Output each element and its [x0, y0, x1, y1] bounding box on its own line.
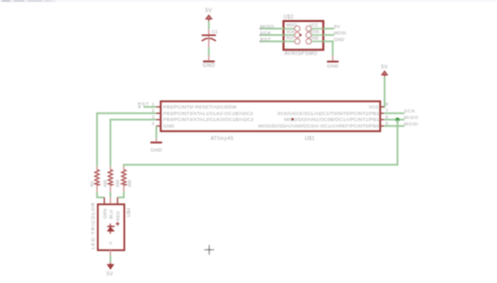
wire R3 to LED GRN [97, 192, 104, 198]
LED U$4 box [98, 204, 125, 250]
wire C1 to GND [208, 47, 210, 55]
wire MISO to U$2 [261, 28, 284, 30]
wire inside U$2 row MOSI [309, 34, 323, 36]
wire inside U$2 row VCC [309, 28, 323, 30]
svg-text:3: 3 [152, 114, 155, 119]
resistor R3 pins [96, 167, 98, 170]
supply 5V symbol arrow (IC rail) [382, 71, 387, 77]
svg-text:VCC: VCC [310, 23, 319, 28]
svg-text:R3: R3 [89, 181, 94, 187]
svg-text:MOSI: MOSI [404, 121, 419, 127]
svg-text:BLU: BLU [109, 210, 114, 219]
pin 3 stub [156, 119, 161, 121]
wire R2 to LED BLU [109, 192, 111, 198]
supply 5V symbol arrow (C1 rail) [206, 15, 212, 21]
svg-text:6: 6 [386, 114, 389, 119]
svg-text:U$1: U$1 [305, 136, 315, 142]
wire RST to U$2 [261, 40, 284, 42]
svg-text:SCK/USCK/SCL/ADC1/T0/INT0/PCIN: SCK/USCK/SCL/ADC1/T0/INT0/PCINT2/PB2 [277, 111, 379, 117]
wire SCK to U$2 [261, 34, 284, 36]
svg-text:U$4: U$4 [126, 208, 132, 217]
label origin cross RST [138, 106, 140, 108]
pin 6 stub [380, 119, 384, 121]
svg-text:LED-TRICOLOR: LED-TRICOLOR [91, 202, 97, 250]
svg-text:5V: 5V [106, 271, 113, 277]
svg-text:MOSI: MOSI [308, 29, 319, 34]
svg-text:SCK: SCK [404, 109, 416, 115]
wire R1 to LED RED [118, 192, 124, 198]
LED plus mark [116, 222, 120, 226]
svg-text:7: 7 [386, 108, 389, 113]
wire LED anode to 5V [109, 255, 111, 262]
capacitor C1 plates [202, 35, 216, 41]
svg-text:ATtiny45: ATtiny45 [211, 136, 234, 142]
resistor R1 pins [123, 167, 125, 170]
svg-text:8: 8 [386, 102, 389, 107]
ground symbol under U$2 [327, 56, 339, 70]
LED symbol [107, 224, 114, 234]
svg-text:2: 2 [152, 108, 155, 113]
svg-text:MISO: MISO [286, 23, 297, 28]
junction dot on MISO net [396, 118, 400, 122]
wire 5V to C1 [208, 22, 210, 30]
svg-text:MOSI/DI/SDA/AIN0/OC0A/-OC1A/AR: MOSI/DI/SDA/AIN0/OC0A/-OC1A/AREF/PCINT0/… [258, 124, 379, 130]
LED pin GRN [103, 197, 105, 204]
svg-text:GND: GND [310, 36, 319, 41]
wire inside U$2 row MISO [285, 28, 298, 30]
wire pin6 to MISO label [384, 119, 404, 121]
wire RST stub to pin1 [144, 106, 157, 108]
wire pin3 to R middle column [110, 120, 156, 167]
wire MISO junction down and left to R [124, 120, 398, 167]
label origin crosses left of U$2 [259, 27, 261, 42]
resistor R2 zigzag [108, 170, 112, 186]
capacitor C1 pin top [208, 29, 210, 38]
wire inside U$2 row GND [309, 40, 323, 42]
svg-text:1: 1 [152, 102, 155, 107]
svg-text:MISO: MISO [404, 115, 419, 121]
ground symbol under C1 [203, 55, 216, 69]
svg-text:4: 4 [152, 121, 155, 126]
svg-text:GND: GND [203, 63, 216, 69]
svg-text:MISO/DO/AIN1/OC0B/OC1A/PCINT1/: MISO/DO/AIN1/OC0B/OC1A/PCINT1/PB1 [284, 117, 379, 123]
pin 7 stub [380, 112, 384, 114]
wire U$2 MOSI to MOSI label [323, 34, 334, 36]
origin crosshair [204, 245, 214, 255]
LED pin BLU [109, 198, 111, 205]
wire pin4 down to ground [155, 126, 157, 138]
svg-text:SCK: SCK [260, 30, 271, 36]
pin 8 stub [380, 106, 384, 108]
svg-text:RST: RST [286, 36, 295, 41]
svg-text:499: 499 [102, 179, 107, 187]
svg-text:PB5/PCINT5/-RESET/ADC0/DW: PB5/PCINT5/-RESET/ADC0/DW [163, 105, 237, 111]
wire 5V to IC VCC pin [380, 77, 384, 107]
capacitor C1 pin bottom [208, 39, 210, 48]
resistor R1 zigzag [122, 170, 126, 186]
svg-text:PB3/PCINT3/XTAL1/CLKI/-OC1B/AD: PB3/PCINT3/XTAL1/CLKI/-OC1B/ADC3 [163, 111, 253, 117]
IC U$1 box [161, 101, 381, 131]
ground symbol under pin4 [150, 138, 162, 153]
svg-text:GND: GND [151, 147, 163, 153]
pin 5 stub [380, 125, 384, 127]
pad circles U$2 [295, 26, 312, 44]
svg-text:SCK: SCK [286, 29, 295, 34]
svg-text:AVRISPSMD: AVRISPSMD [284, 51, 317, 57]
wire U$2 VCC to 5V label [323, 28, 334, 30]
junction dot inside U$2 on SCK row [299, 34, 301, 36]
wire U$2 GND right then down [323, 41, 332, 55]
svg-text:U$2: U$2 [284, 15, 294, 21]
LED anode pin [109, 250, 111, 255]
svg-text:GND: GND [334, 37, 345, 43]
svg-text:GND: GND [163, 124, 174, 130]
svg-text:5: 5 [386, 121, 389, 126]
wire pin5 to MOSI label [384, 125, 404, 127]
svg-text:RED: RED [115, 211, 120, 221]
svg-text:MISO: MISO [260, 24, 274, 30]
svg-text:5V: 5V [381, 65, 388, 71]
pin 2 stub [156, 112, 161, 114]
svg-text:5V: 5V [334, 24, 341, 30]
svg-text:GRN: GRN [102, 209, 107, 219]
svg-text:VCC: VCC [369, 105, 380, 111]
svg-text:A: A [108, 242, 113, 245]
svg-text:GND: GND [327, 63, 339, 69]
svg-text:RST: RST [260, 37, 271, 43]
wire inside U$2 row SCK [285, 34, 301, 36]
connector U$2 box [284, 21, 324, 50]
resistor R2 pins [109, 167, 111, 170]
svg-text:PB4/PCINT4/XTAL2/CLKO/OC1B/ADC: PB4/PCINT4/XTAL2/CLKO/OC1B/ADC2 [163, 117, 254, 123]
wire inside U$2 row RST [285, 40, 298, 42]
wire pin2 to R left column [97, 113, 156, 166]
supply 5V symbol arrow (LED rail, pointing down) [108, 262, 114, 269]
pin 4 stub [156, 125, 161, 127]
browser top edge artifact [0, 0, 497, 2]
svg-text:MOSI: MOSI [334, 31, 347, 37]
pin 1 stub [156, 106, 161, 108]
svg-text:5V: 5V [205, 8, 212, 14]
svg-text:C1: C1 [212, 29, 218, 34]
svg-text:200: 200 [127, 179, 132, 187]
wire pin7 to SCK label [384, 112, 404, 114]
LED pin RED [117, 197, 119, 204]
resistor R3 zigzag [95, 170, 99, 186]
red dot artifact in row3 text [291, 118, 293, 120]
svg-text:499: 499 [115, 179, 120, 187]
